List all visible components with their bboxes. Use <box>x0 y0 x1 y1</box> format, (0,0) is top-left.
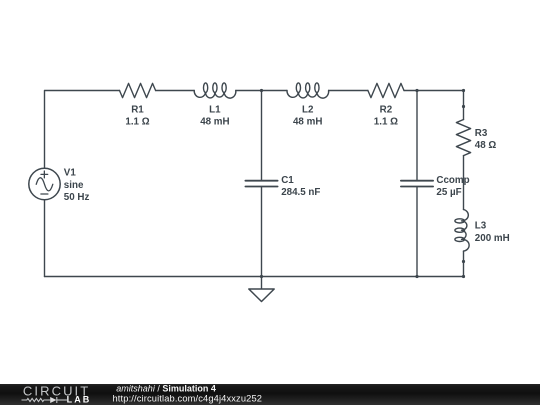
svg-text:http://circuitlab.com/c4g4j4xx: http://circuitlab.com/c4g4j4xxzu252 <box>113 394 263 404</box>
svg-text:LAB: LAB <box>67 394 92 404</box>
node dot ground junction <box>260 275 263 278</box>
ground <box>249 277 274 302</box>
svg-text:48 mH: 48 mH <box>200 117 229 128</box>
wire L1 to L2 (through node A) <box>236 90 287 92</box>
svg-text:25 µF: 25 µF <box>436 187 461 198</box>
svg-text:R1: R1 <box>131 104 144 115</box>
wire R2 to top-right corner <box>404 91 464 120</box>
svg-text:1.1 Ω: 1.1 Ω <box>374 117 398 128</box>
wire top-left segment <box>45 91 120 169</box>
node dot bottom-right corner <box>462 275 465 278</box>
inductor L2 <box>287 83 329 98</box>
svg-text:L2: L2 <box>302 104 314 115</box>
node A dot (L1/L2/C1 junction) <box>260 89 263 92</box>
svg-text:L1: L1 <box>209 104 221 115</box>
inductor L3 <box>455 210 469 252</box>
svg-text:sine: sine <box>64 180 84 191</box>
node dot R2/Ccomp junction <box>415 89 418 92</box>
svg-text:L3: L3 <box>475 221 487 232</box>
footer attribution text <box>113 384 263 404</box>
svg-text:amitshahi / Simulation 4: amitshahi / Simulation 4 <box>116 384 216 394</box>
node dot R3 top terminal <box>462 105 465 108</box>
wire R1 to L1 <box>156 90 195 92</box>
CircuitLab logo schematic squiggle <box>22 397 67 403</box>
wire R3 to L3 <box>463 156 465 210</box>
svg-text:284.5 nF: 284.5 nF <box>281 187 320 198</box>
voltage source V1 <box>29 168 60 199</box>
wire bottom rail <box>45 276 464 278</box>
wire L3 to bottom-right corner <box>463 251 465 276</box>
svg-text:50 Hz: 50 Hz <box>64 192 90 203</box>
svg-text:48 Ω: 48 Ω <box>475 140 497 151</box>
svg-text:Ccomp: Ccomp <box>436 175 469 186</box>
CircuitLab logo wordmark <box>23 384 91 405</box>
svg-text:V1: V1 <box>64 168 77 179</box>
wire L2 to R2 <box>329 90 368 92</box>
svg-text:48 mH: 48 mH <box>293 117 322 128</box>
resistor R2 <box>368 83 404 97</box>
capacitor C1 <box>245 91 277 277</box>
node dot top-right corner <box>462 89 465 92</box>
wire left rail below V1 <box>44 200 46 277</box>
svg-text:1.1 Ω: 1.1 Ω <box>125 117 149 128</box>
svg-text:R3: R3 <box>475 128 488 139</box>
svg-text:R2: R2 <box>380 104 393 115</box>
inductor L1 <box>194 83 236 98</box>
resistor R3 <box>456 120 470 156</box>
resistor R1 <box>120 83 156 97</box>
node dot L3 bottom terminal <box>462 260 465 263</box>
node dot Ccomp bottom <box>415 275 418 278</box>
svg-text:C1: C1 <box>281 175 294 186</box>
capacitor Ccomp <box>401 91 433 277</box>
svg-text:200 mH: 200 mH <box>475 233 510 244</box>
